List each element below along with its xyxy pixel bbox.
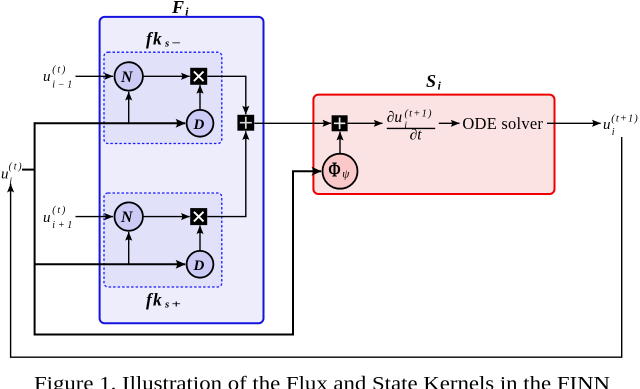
sum box plus (state) (332, 115, 348, 131)
svg-text:(t): (t) (9, 161, 23, 172)
svg-text:S: S (426, 71, 436, 91)
svg-text:fk: fk (146, 29, 163, 49)
wire: D2 up into x2 (199, 225, 201, 250)
multiply box x1 (190, 68, 207, 85)
wire: bus to Phi (bottom path) (35, 171, 322, 334)
svg-text:i: i (404, 120, 407, 131)
svg-text:s: s (164, 299, 169, 311)
svg-text:ODE solver: ODE solver (462, 114, 543, 133)
wire: x1 right then down into plus (207, 76, 246, 114)
svg-text:u: u (1, 167, 9, 183)
dashed box fk_s+ (104, 193, 222, 287)
svg-text:N: N (120, 69, 134, 86)
svg-text:D: D (193, 117, 205, 133)
svg-text:u: u (43, 210, 51, 226)
svg-text:N: N (120, 209, 134, 226)
svg-text:i: i (9, 176, 12, 187)
wire: u_{i-1} input arrow to N1 (76, 75, 114, 77)
wire: outer feedback loop u_i(t+1) -> u_i(t) (11, 137, 622, 357)
svg-text:(t): (t) (52, 64, 66, 75)
svg-text:−: − (172, 37, 182, 49)
wire: ODE solver to u_i(t+1) (547, 122, 601, 124)
wire: bus to D1 (35, 122, 186, 124)
svg-text:Φ: Φ (328, 157, 341, 181)
svg-text:u: u (43, 69, 51, 85)
svg-text:+: + (172, 299, 182, 311)
wire: u_{i+1} input arrow to N2 (76, 216, 114, 218)
svg-text:∂t: ∂t (410, 126, 423, 143)
svg-text:i: i (612, 127, 615, 138)
diffusion circle D1 (187, 110, 214, 137)
svg-text:(t+1): (t+1) (611, 114, 638, 125)
wire: bus to D2 (35, 263, 186, 265)
sum box plus (flux) (237, 115, 254, 131)
state kernel box S_i (313, 95, 554, 194)
multiply box x2 (190, 208, 207, 225)
svg-text:Figure 1. Illustration of the: Figure 1. Illustration of the Flux and S… (34, 373, 610, 389)
neural net circle N1 (115, 62, 143, 90)
flux kernel box F_i (100, 17, 264, 323)
wire: branch up into N1 (128, 92, 130, 123)
svg-text:u: u (603, 117, 611, 133)
dashed box fk_s- (104, 52, 222, 143)
svg-text:∂u: ∂u (387, 109, 403, 126)
svg-text:(t+1): (t+1) (405, 108, 433, 119)
svg-text:(t): (t) (52, 205, 66, 216)
wire: fraction to ODE solver (439, 122, 460, 124)
wire: N2 to x2 (143, 216, 190, 218)
wire: S-plus to fraction (348, 122, 383, 124)
wire: N1 to x1 (143, 75, 190, 77)
svg-text:D: D (193, 258, 205, 274)
svg-text:F: F (171, 0, 184, 17)
wire: Phi up into S-plus (339, 132, 341, 154)
neural net circle N2 (115, 202, 143, 230)
svg-text:s: s (164, 38, 169, 50)
state kernel circle Phi_psi (323, 154, 358, 189)
wire: u_i(t) bus vertical (34, 122, 36, 335)
wire: branch up into N2 (128, 232, 130, 264)
diffusion circle D2 (187, 251, 214, 278)
wire: x2 right then up into plus (207, 131, 246, 216)
svg-text:fk: fk (146, 290, 163, 310)
wire: D1 up into x1 (199, 85, 201, 109)
svg-text:ψ: ψ (342, 168, 350, 180)
wire: plus to S-plus (254, 122, 331, 124)
wire: u_i(t) label tick (22, 169, 35, 171)
